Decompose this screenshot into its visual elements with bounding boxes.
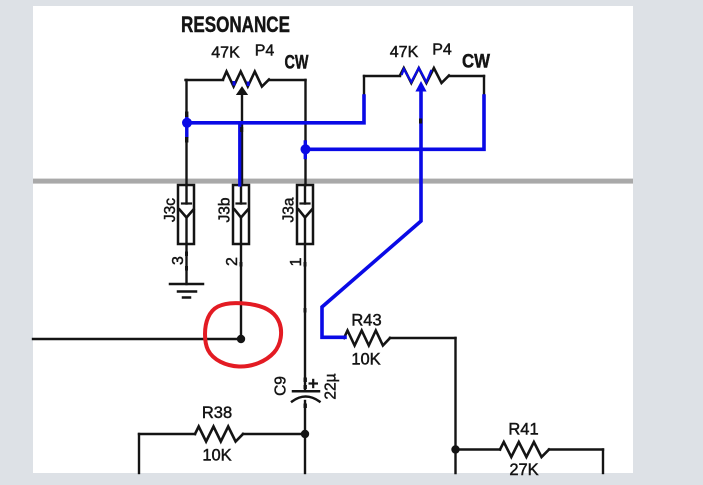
wire: right pot right terminal upper (black part) [483,76,485,98]
wire: J3a pin 1 down to C9 [304,244,306,390]
wire: left pot left terminal vertical (to J3c) [185,80,187,185]
connector J3a box [297,185,313,244]
blue junction dot 1 [182,118,192,128]
small wire tick marks [185,112,422,409]
wire: left pot top lead left [186,79,224,81]
svg-text:RESONANCE: RESONANCE [181,12,290,37]
svg-text:P4: P4 [255,43,275,60]
wire: J3b pin 2 down to node [240,244,242,339]
blue wire: right pot wiper down, diagonal to R43 [322,88,421,337]
wire: right pot top lead left [364,75,400,77]
gray separator band [33,179,633,184]
wire: right pot left terminal upper (black part) [363,76,365,99]
svg-text:CW: CW [462,52,490,73]
blue wire: stub above/below dot1 [185,117,188,137]
svg-text:J3a: J3a [280,197,297,222]
wire: R43 right lead [390,337,456,339]
ground [170,283,203,286]
red annotation circle [205,303,281,366]
svg-text:1: 1 [288,257,305,266]
connector J3b box [233,185,249,244]
wire: horizontal from left edge to node [33,338,241,340]
svg-text:J3c: J3c [162,198,179,222]
blue wire: dot2 horizontal to right pot right terminal [306,96,485,149]
wire: R38 right lead to junction [243,433,305,435]
blue wiper arrow of right pot [415,81,426,92]
wire: C9 to junction [304,401,306,434]
wire: left pot top lead right [269,79,306,81]
svg-text:C9: C9 [272,376,289,396]
resistor R41 zigzag [500,442,549,457]
junction dot C9/R38 [301,430,309,438]
resistor R43 zigzag [344,331,390,346]
junction dot R41 [451,445,459,453]
blue overlay on right pot zigzag [402,68,431,82]
plus sign of C9 [309,379,319,388]
svg-text:27K: 27K [509,461,538,479]
wire: right pot top lead right [449,75,484,77]
node junction dot in red circle [237,335,245,343]
wire: left pot right terminal vertical (to J3a) [304,80,306,185]
wire: R41 right drop [602,450,604,474]
capacitor C9 top plate [293,390,319,393]
blue wire: stub above/below dot2 [304,142,307,158]
svg-text:R38: R38 [202,404,232,422]
connector J3c box [178,185,194,244]
blue specks on left pot zigzag [233,81,250,86]
wire: J3c pin 3 to ground [185,244,187,284]
svg-text:22µ: 22µ [322,373,339,399]
J3c socket chevron [180,210,194,218]
svg-text:10K: 10K [351,351,380,369]
blue wire: left pot wiper to J3b [238,123,241,185]
wire: R38 left drop [138,434,140,473]
blue junction dot 2 [301,144,311,154]
svg-text:10K: 10K [202,447,231,465]
svg-text:47K: 47K [390,44,419,61]
wire: R43 down to R41 junction [454,338,456,473]
blue wire: dot1 horizontal to right pot left terminal [187,96,364,123]
svg-text:47K: 47K [211,45,240,62]
resistor R38 zigzag [195,427,243,442]
wire: R41 right lead [549,448,603,450]
wire: R41 left lead [456,448,501,450]
svg-text:R43: R43 [351,312,381,330]
resistor P4 right 47K zigzag [400,68,449,83]
capacitor C9 curved plate [292,397,320,402]
wire: junction down to bottom [304,434,306,473]
blue annotation wires [187,68,484,337]
wiper arrow of left pot P4 [237,87,247,95]
svg-text:P4: P4 [432,42,452,59]
J3c pin line and bar [185,185,187,204]
svg-text:CW: CW [285,53,309,74]
wire: left pot wiper vertical (to J3b) [241,93,243,185]
svg-text:2: 2 [224,257,241,266]
resistor P4 left 47K zigzag [223,72,269,87]
svg-text:3: 3 [170,256,187,265]
svg-text:R41: R41 [508,421,538,439]
svg-text:J3b: J3b [216,198,233,223]
wire: R38 left lead [139,433,195,435]
